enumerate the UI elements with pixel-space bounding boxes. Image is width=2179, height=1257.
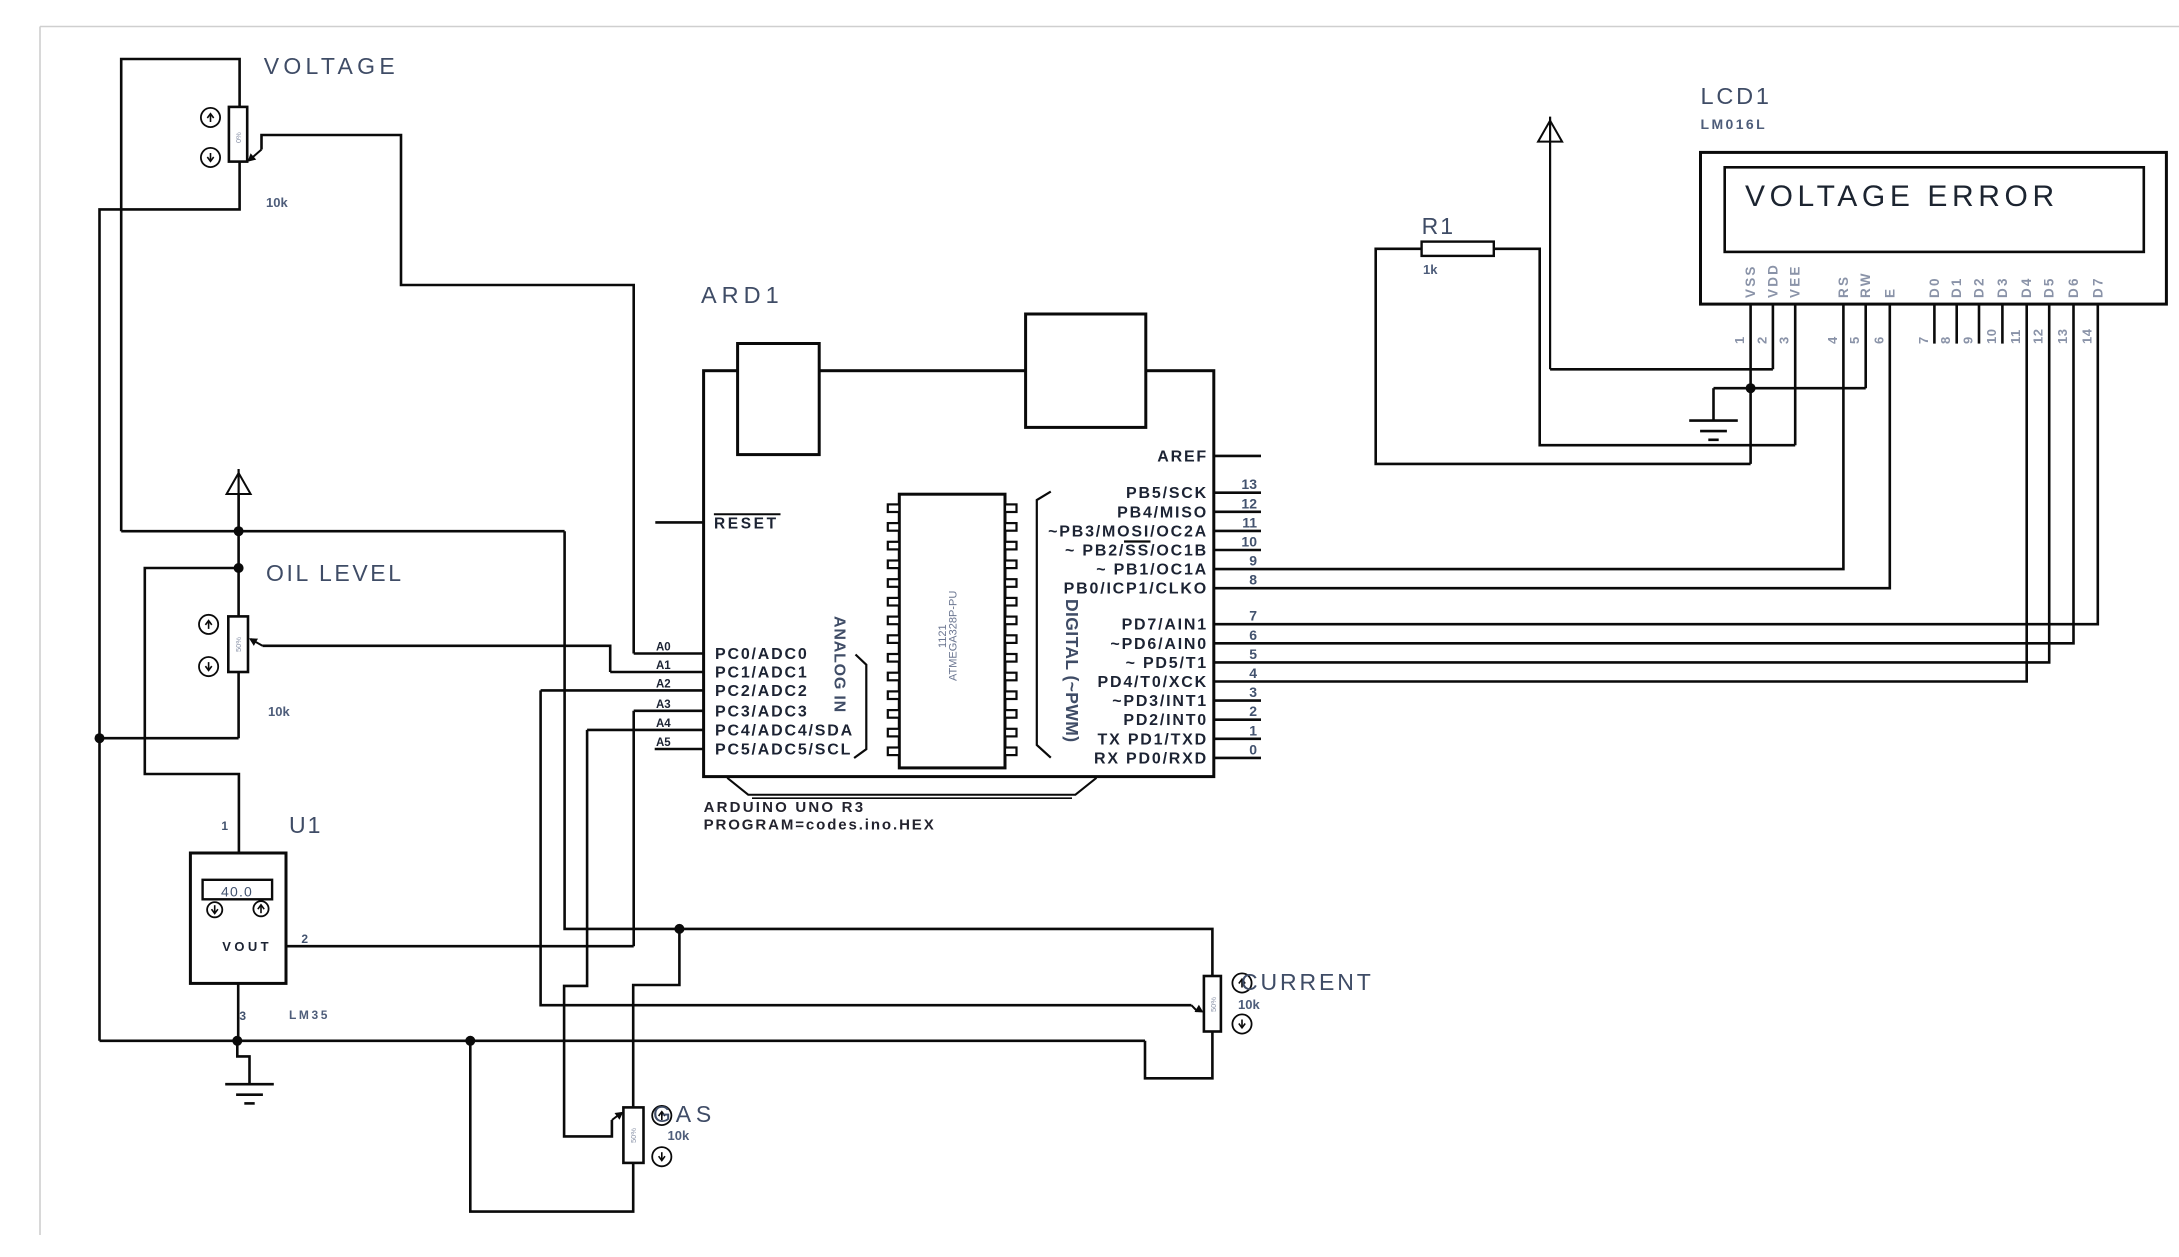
svg-text:10k: 10k [266, 195, 288, 210]
svg-text:~ PD5/T1: ~ PD5/T1 [1126, 655, 1208, 672]
svg-text:10k: 10k [268, 704, 290, 719]
pin 9 PB1/OC1A [1096, 553, 1257, 579]
wire LCD RW down [1864, 303, 1867, 388]
wire A1 [610, 671, 703, 674]
svg-text:6: 6 [1249, 627, 1257, 643]
ground symbol (U1) [225, 1084, 274, 1103]
svg-text:~PB3/MOSI/OC2A: ~PB3/MOSI/OC2A [1048, 523, 1208, 540]
svg-text:8: 8 [1938, 336, 1953, 344]
pin A4 PC4/ADC4/SDA [656, 718, 854, 740]
svg-text:50%: 50% [1209, 997, 1218, 1012]
svg-text:50%: 50% [629, 1128, 638, 1143]
wire RESET stub [655, 521, 703, 524]
wire pin 9 to LCD RS [1214, 303, 1844, 569]
svg-text:PB0/ICP1/CLKO: PB0/ICP1/CLKO [1064, 581, 1208, 598]
power +5V symbol (LCD) [1538, 117, 1562, 370]
svg-text:ATMEGA328P-PU: ATMEGA328P-PU [948, 591, 960, 681]
svg-text:2: 2 [301, 932, 308, 946]
svg-text:VOLTAGE: VOLTAGE [264, 53, 399, 79]
pin 12 PB4/MISO [1117, 495, 1257, 521]
svg-text:1k: 1k [1423, 262, 1438, 277]
svg-text:DIGITAL (~PWM): DIGITAL (~PWM) [1062, 599, 1082, 742]
svg-text:PD4/T0/XCK: PD4/T0/XCK [1098, 674, 1208, 691]
svg-text:13: 13 [2055, 329, 2070, 344]
svg-text:PD2/INT0: PD2/INT0 [1123, 712, 1208, 729]
svg-text:PC4/ADC4/SDA: PC4/ADC4/SDA [715, 722, 854, 739]
pin A3 PC3/ADC3 [656, 699, 809, 721]
wire LCD VSS down [1749, 303, 1752, 464]
junction +5V / GAS branch [674, 924, 684, 934]
arduino power jack [1026, 314, 1146, 427]
svg-text:5: 5 [1847, 336, 1862, 344]
wire digital pin 0 stub [1214, 757, 1261, 760]
svg-text:2: 2 [1249, 703, 1257, 719]
wire digital pin 1 stub [1214, 737, 1261, 740]
svg-text:CURRENT: CURRENT [1241, 969, 1374, 995]
svg-text:OIL LEVEL: OIL LEVEL [266, 560, 404, 586]
wire A4 [587, 729, 704, 732]
svg-text:3: 3 [1777, 336, 1792, 344]
junction ground rail / GAS bottom [465, 1036, 475, 1046]
arduino usb connector [738, 344, 820, 455]
wire VOLTAGE pot top to +5V rail [121, 59, 239, 531]
wire pin 7 to LCD D7 [1214, 303, 2098, 624]
wire digital pin 13 stub [1214, 491, 1261, 494]
svg-text:PC5/ADC5/SCL: PC5/ADC5/SCL [715, 742, 852, 759]
svg-text:40.0: 40.0 [221, 884, 253, 900]
svg-text:ARD1: ARD1 [701, 282, 784, 308]
wire ground rail horizontal [100, 1040, 1146, 1043]
svg-text:4: 4 [1825, 336, 1840, 344]
wire digital pin 2 stub [1214, 718, 1261, 721]
svg-text:11: 11 [2008, 329, 2023, 344]
pin 4 PD4/T0/XCK [1098, 665, 1258, 691]
svg-text:D3: D3 [1995, 276, 2010, 298]
svg-text:A2: A2 [656, 678, 671, 690]
svg-text:PD7/AIN1: PD7/AIN1 [1122, 617, 1208, 634]
svg-text:D4: D4 [2019, 276, 2034, 298]
svg-text:~ PB2/SS/OC1B: ~ PB2/SS/OC1B [1065, 543, 1208, 560]
wire pin 8 to LCD E [1214, 303, 1890, 588]
LCD pin 3 VEE [1777, 264, 1803, 344]
wire A0 [634, 652, 704, 655]
wire pin 4 to LCD D4 [1214, 303, 2027, 682]
wire R1 left to VSS net [1376, 249, 1751, 464]
pin 10 PB2/SS/OC1B [1065, 534, 1257, 560]
svg-text:10k: 10k [1238, 997, 1260, 1012]
svg-text:3: 3 [1249, 684, 1257, 700]
svg-text:0: 0 [1249, 741, 1257, 757]
wire A2 to CURRENT wiper [541, 690, 1192, 1005]
pin 13 PB5/SCK [1126, 476, 1257, 502]
analog group bracket [854, 655, 866, 759]
LCD body [1701, 152, 2167, 304]
wire U1 pin 3 to ground rail [237, 983, 240, 1040]
wire LCD data stub [1933, 303, 1936, 344]
svg-text:RESET: RESET [714, 516, 779, 533]
wire A4 to GAS wiper [564, 730, 612, 1137]
potentiometer RV GAS [612, 1101, 716, 1166]
resistor R1 1k [1422, 213, 1494, 277]
wire ground branch to OIL pot bottom [100, 737, 239, 740]
svg-text:TX PD1/TXD: TX PD1/TXD [1098, 731, 1208, 748]
wire +5V rail down to CURRENT pot top [565, 531, 1213, 976]
svg-text:E: E [1882, 287, 1897, 298]
svg-text:VEE: VEE [1788, 264, 1803, 298]
junction OIL top / U1 pin1 branch [234, 563, 244, 573]
svg-text:RX PD0/RXD: RX PD0/RXD [1094, 750, 1208, 767]
wire LCD data stub [1955, 303, 1958, 344]
svg-text:4: 4 [1249, 665, 1257, 681]
svg-text:LM016L: LM016L [1701, 116, 1768, 132]
wire pin 5 to LCD D5 [1214, 303, 2049, 662]
svg-text:~PD6/AIN0: ~PD6/AIN0 [1110, 636, 1208, 653]
svg-text:D7: D7 [2090, 276, 2105, 298]
svg-text:PC0/ADC0: PC0/ADC0 [715, 646, 809, 663]
wire +5V to LCD VDD [1550, 368, 1773, 371]
svg-text:A1: A1 [656, 660, 671, 672]
arduino pcb shadow outline [727, 778, 1096, 795]
svg-text:VOUT: VOUT [222, 939, 272, 954]
wire LCD data stub [2001, 303, 2004, 344]
pin 2 PD2/INT0 [1123, 703, 1257, 729]
wire digital pin AREF stub [1214, 455, 1261, 458]
junction LCD VSS / ground [1746, 383, 1756, 393]
svg-text:VOLTAGE ERROR: VOLTAGE ERROR [1745, 180, 2059, 213]
LCD display LCD1 LM016L [1701, 83, 2167, 344]
svg-text:9: 9 [1961, 336, 1976, 344]
svg-text:RS: RS [1836, 275, 1851, 298]
wire A2 [541, 689, 704, 692]
svg-text:2: 2 [1754, 336, 1769, 344]
ground symbol (LCD) [1689, 421, 1738, 440]
svg-text:9: 9 [1249, 553, 1257, 569]
LCD pin 5 RW [1847, 271, 1873, 344]
junction +5V rail / OIL branch [234, 526, 244, 536]
svg-text:LCD1: LCD1 [1701, 83, 1772, 109]
pin 11 PB3/MOSI/OC2A [1048, 514, 1257, 540]
svg-text:D5: D5 [2042, 276, 2057, 298]
wire digital pin 10 stub [1214, 549, 1261, 552]
wire digital pin 11 stub [1214, 530, 1261, 533]
svg-text:6: 6 [1871, 336, 1886, 344]
svg-text:0%: 0% [234, 132, 243, 143]
svg-text:A0: A0 [656, 642, 671, 654]
wire A3 down to LM35 VOUT [632, 711, 635, 946]
LCD pin 1 VSS [1732, 264, 1758, 344]
svg-text:PC1/ADC1: PC1/ADC1 [715, 665, 809, 682]
pin A2 PC2/ADC2 [656, 678, 809, 700]
svg-text:D1: D1 [1949, 276, 1964, 298]
LCD pin 9 D2 [1961, 276, 1987, 344]
wire LCD data stub [1978, 303, 1981, 344]
wire LCD VDD down [1772, 303, 1775, 369]
svg-text:7: 7 [1916, 336, 1931, 344]
LCD pin 4 RS [1825, 275, 1851, 344]
digital group bracket [1037, 492, 1051, 758]
svg-text:PC3/ADC3: PC3/ADC3 [715, 703, 809, 720]
pin A0 PC0/ADC0 [656, 642, 809, 664]
svg-text:R1: R1 [1422, 213, 1455, 239]
pin 8 PB0/ICP1/CLKO [1064, 572, 1258, 598]
svg-text:PROGRAM=codes.ino.HEX: PROGRAM=codes.ino.HEX [704, 817, 936, 834]
arduino ARD1 [701, 282, 1214, 834]
power +5V symbol (left) [227, 469, 251, 531]
SS overline [1124, 540, 1151, 542]
svg-text:7: 7 [1249, 608, 1257, 624]
svg-text:VDD: VDD [1765, 263, 1780, 298]
LCD pin 11 D4 [2008, 276, 2034, 344]
LCD pin 14 D7 [2079, 276, 2105, 344]
wire digital pin 3 stub [1214, 699, 1261, 702]
svg-text:50%: 50% [234, 637, 243, 652]
svg-text:LM35: LM35 [289, 1008, 330, 1022]
svg-text:D6: D6 [2066, 276, 2081, 298]
wire pin 6 to LCD D6 [1214, 303, 2074, 643]
svg-text:ANALOG IN: ANALOG IN [831, 616, 848, 713]
junction U1 pin3 / ground [232, 1036, 242, 1046]
LCD pin 2 VDD [1754, 263, 1780, 344]
pin AREF AREF [1157, 448, 1208, 465]
svg-text:PB4/MISO: PB4/MISO [1117, 504, 1208, 521]
junction ground rail / OIL bottom [95, 733, 105, 743]
pin 5 PD5/T1 [1126, 646, 1258, 672]
svg-text:11: 11 [1242, 514, 1257, 530]
pin 7 PD7/AIN1 [1122, 608, 1258, 634]
svg-text:10k: 10k [668, 1128, 690, 1143]
LCD pin 7 D0 [1916, 276, 1942, 344]
svg-text:D2: D2 [1972, 276, 1987, 298]
svg-text:1: 1 [1249, 722, 1257, 738]
svg-text:GAS: GAS [653, 1101, 716, 1127]
wire OIL pot bottom stub [237, 672, 240, 738]
wire OIL wiper to A1 [263, 646, 611, 672]
svg-text:10: 10 [1241, 534, 1257, 550]
pin A1 PC1/ADC1 [656, 660, 809, 682]
potentiometer RV VOLTAGE [201, 53, 399, 210]
wire U1 ground stub [237, 1041, 249, 1083]
svg-text:13: 13 [1241, 476, 1257, 492]
wire A3 [634, 709, 704, 712]
wire +5V branch to GAS pot top [633, 929, 679, 1108]
wire CURRENT wiper diagonal [1191, 1005, 1197, 1011]
svg-text:VSS: VSS [1743, 264, 1758, 298]
svg-text:12: 12 [2031, 329, 2046, 344]
svg-text:5: 5 [1249, 646, 1257, 662]
wire LCD ground stub [1712, 388, 1715, 420]
LCD pin 8 D1 [1938, 276, 1964, 344]
svg-text:U1: U1 [289, 812, 322, 838]
pin 3 PD3/INT1 [1112, 684, 1257, 710]
arduino body [704, 371, 1214, 777]
wire VOLTAGE wiper to A0 [262, 135, 634, 654]
svg-text:14: 14 [2079, 328, 2094, 344]
svg-text:1: 1 [1732, 336, 1747, 344]
svg-text:1: 1 [221, 819, 228, 833]
svg-text:A5: A5 [656, 737, 671, 749]
svg-text:PC2/ADC2: PC2/ADC2 [715, 683, 809, 700]
svg-text:8: 8 [1249, 572, 1257, 588]
wire +5V branch to U1 pin 1 [145, 568, 239, 853]
svg-text:A3: A3 [656, 699, 671, 711]
LCD pin 13 D6 [2055, 276, 2081, 344]
microcontroller ATMEGA328P-PU [888, 494, 1017, 768]
pin 6 PD6/AIN0 [1110, 627, 1257, 653]
temperature sensor U1 LM35 [190, 812, 330, 1023]
wire VOLTAGE pot bottom to ground rail [100, 162, 240, 1041]
pin A5 PC5/ADC5/SCL [656, 737, 852, 759]
LCD pin 6 E [1871, 287, 1897, 344]
wire A5 stub [655, 748, 704, 751]
svg-text:3: 3 [239, 1009, 246, 1023]
svg-text:ARDUINO UNO R3: ARDUINO UNO R3 [704, 799, 866, 816]
svg-text:10: 10 [1984, 329, 1999, 344]
wire RW/VSS to ground [1714, 387, 1866, 390]
svg-text:~PD3/INT1: ~PD3/INT1 [1112, 693, 1208, 710]
wire ground to GAS pot bottom [470, 1041, 633, 1212]
svg-text:PB5/SCK: PB5/SCK [1126, 485, 1208, 502]
svg-text:D0: D0 [1927, 276, 1942, 298]
wire digital pin 12 stub [1214, 510, 1261, 513]
LCD screen [1725, 167, 2144, 252]
pin 1 TX PD1/TXD [1098, 722, 1258, 748]
wire LCD VEE down [1794, 303, 1797, 445]
wire +5V rail horizontal [121, 530, 564, 533]
wire R1 right to VEE [1494, 249, 1795, 445]
wire +5V arrow stub to OIL pot top [237, 494, 240, 617]
svg-text:A4: A4 [656, 718, 671, 730]
svg-text:12: 12 [1241, 495, 1257, 511]
svg-text:~ PB1/OC1A: ~ PB1/OC1A [1096, 562, 1208, 579]
pin 0 RX PD0/RXD [1094, 741, 1257, 767]
LCD pin 12 D5 [2031, 276, 2057, 344]
LCD pin 10 D3 [1984, 276, 2010, 344]
svg-text:AREF: AREF [1157, 448, 1208, 465]
potentiometer RV OIL LEVEL [199, 560, 404, 719]
potentiometer RV CURRENT [1195, 969, 1374, 1034]
svg-text:RW: RW [1858, 271, 1873, 298]
wire ground to CURRENT pot bottom [1145, 1032, 1212, 1079]
wire U1 VOUT pin 2 to A3 [286, 945, 634, 948]
